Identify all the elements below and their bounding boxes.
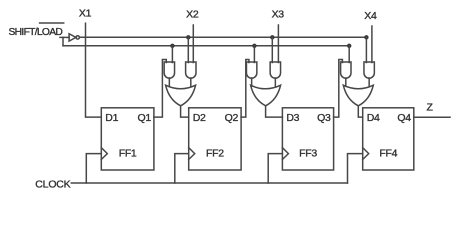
node shift bus tap stage3 <box>252 44 256 48</box>
wire load bus (inverter output, y=37.3) <box>79 36 366 38</box>
svg-text:FF3: FF3 <box>299 148 317 160</box>
OR gate O3 <box>251 85 281 106</box>
overbar on LOAD <box>40 22 64 24</box>
wire AND2a output stub <box>168 78 170 86</box>
wire load bus drop to AND3b <box>271 37 273 62</box>
flip-flop FF4 <box>363 108 414 170</box>
wire OR4 to D4 <box>358 106 362 117</box>
svg-text:X1: X1 <box>79 7 92 19</box>
AND gate A2b <box>186 62 196 78</box>
svg-text:FF2: FF2 <box>206 148 224 160</box>
svg-text:X4: X4 <box>364 10 377 22</box>
wire clock to FF2 <box>175 154 189 183</box>
svg-text:D3: D3 <box>286 112 299 124</box>
wire shift bus drop to AND3a <box>253 46 255 63</box>
wire OR3 to D3 <box>266 106 283 117</box>
svg-text:Q1: Q1 <box>137 112 151 124</box>
wire clock to FF3 <box>268 154 282 183</box>
clock triangle FF4 <box>363 148 369 160</box>
node shift bus tap stage4 <box>347 44 351 48</box>
svg-text:Q4: Q4 <box>397 112 411 124</box>
wire Q1 feedback <box>154 60 166 118</box>
wire clock to FF4 <box>348 154 363 183</box>
wire Q3 feedback <box>334 60 343 118</box>
wire OR2 to D2 <box>181 106 189 117</box>
svg-text:CLOCK: CLOCK <box>35 179 70 191</box>
svg-text:Q2: Q2 <box>225 112 239 124</box>
node shift bus tap stage2 <box>170 44 174 48</box>
svg-text:D2: D2 <box>193 112 206 124</box>
svg-text:D4: D4 <box>367 112 380 124</box>
inverter U1 <box>69 34 76 41</box>
wire shift bus (direct, y=45.8) <box>63 45 349 47</box>
wire clock line <box>71 182 347 184</box>
wire AND3b output stub <box>274 78 276 86</box>
AND gate A3b <box>270 62 280 78</box>
AND gate A3a <box>246 62 256 78</box>
wire shift bus drop to AND4a <box>348 46 350 63</box>
OR gate O4 <box>343 85 373 106</box>
wire AND4b output stub <box>368 78 370 86</box>
node load bus tap stage2 <box>186 35 190 39</box>
AND gate A2a <box>164 62 174 78</box>
svg-text:FF4: FF4 <box>379 148 397 160</box>
wire X4 drop <box>371 26 373 63</box>
node load bus tap stage4 <box>364 35 368 39</box>
node load bus tap stage3 <box>270 35 274 39</box>
svg-text:X3: X3 <box>272 9 285 21</box>
wire Q4 to Z <box>414 116 450 118</box>
wire X1 to D1 <box>86 23 102 117</box>
wire shift bus drop to AND2a <box>171 46 173 63</box>
flip-flop FF3 <box>282 108 333 170</box>
AND gate A4a <box>341 62 351 78</box>
clock triangle FF3 <box>282 148 288 160</box>
flip-flop FF1 <box>101 108 154 170</box>
wire SHIFT/LOAD input to inverter <box>60 36 69 38</box>
OR gate O2 <box>166 85 196 106</box>
svg-text:FF1: FF1 <box>119 148 137 160</box>
AND gate A4b <box>364 62 374 78</box>
flip-flop FF2 <box>189 108 241 170</box>
wire AND4a output stub <box>345 78 347 86</box>
wire AND3a output stub <box>251 78 253 86</box>
wire Q2 feedback <box>241 60 249 118</box>
svg-text:Z: Z <box>427 101 434 113</box>
wire branch down to shift bus <box>62 37 64 45</box>
svg-text:X2: X2 <box>186 9 199 21</box>
clock triangle FF2 <box>189 148 195 160</box>
svg-text:Q3: Q3 <box>317 112 331 124</box>
wire X3 drop <box>277 25 279 63</box>
clock triangle FF1 <box>101 148 107 160</box>
svg-text:D1: D1 <box>105 112 118 124</box>
wire AND2b output stub <box>190 78 192 86</box>
wire X2 drop <box>192 25 194 63</box>
wire load bus drop to AND2b <box>187 37 189 62</box>
svg-text:SHIFT/LOAD: SHIFT/LOAD <box>9 27 63 38</box>
wire load bus drop to AND4b <box>365 37 367 62</box>
wire clock to FF1 <box>86 154 101 183</box>
